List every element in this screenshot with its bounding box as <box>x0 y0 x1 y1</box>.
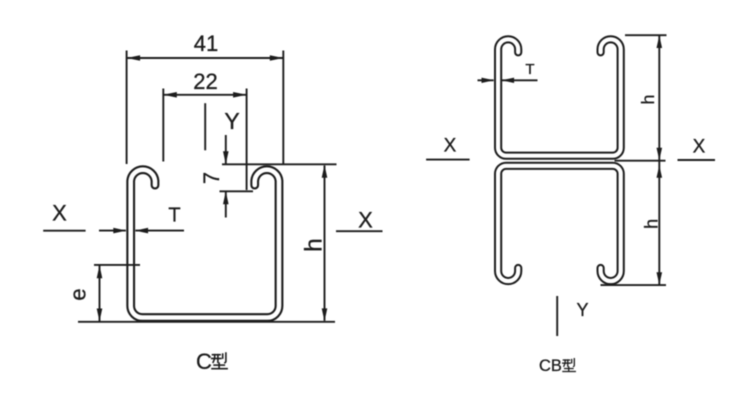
bottom extension line <box>601 284 667 286</box>
lower h arrows <box>657 165 663 178</box>
X axis label line left <box>43 230 85 232</box>
dim T right arrow (points left at inner wall) <box>135 230 184 232</box>
dim e top reference line <box>94 264 140 266</box>
svg-text:X: X <box>52 201 67 226</box>
X axis label line right (right diagram) <box>678 159 716 161</box>
X axis label line left (right diagram) <box>426 159 470 161</box>
svg-text:7: 7 <box>199 172 224 184</box>
dim 41 extension line right <box>282 51 284 165</box>
dim 41 arrow left <box>127 55 141 61</box>
dim 7 upper arrow (points down) <box>225 135 227 164</box>
dim 41 arrow right <box>270 55 284 61</box>
dim T (right diagram) left arrow <box>478 79 494 81</box>
svg-text:C: C <box>196 349 212 374</box>
dim T (right diagram) right arrow <box>502 79 538 81</box>
C profile body (material drawn as double line via black+white strokes) <box>131 170 279 318</box>
Y axis line (right diagram) <box>556 296 558 336</box>
svg-text:41: 41 <box>194 31 218 56</box>
dim e vertical line with arrows <box>99 266 101 322</box>
svg-text:X: X <box>358 208 373 233</box>
dim 22 line <box>163 94 246 96</box>
Y axis line (left diagram) <box>204 103 206 150</box>
bottom base line (extends both sides of profile bottom) <box>78 321 335 323</box>
dim 7 / h top reference line <box>222 163 337 165</box>
svg-text:Y: Y <box>576 300 588 320</box>
dim T left arrow (points right at outer wall) <box>99 230 126 232</box>
dim 41 extension line left <box>126 51 128 165</box>
svg-text:X: X <box>444 136 457 157</box>
svg-text:X: X <box>693 137 706 158</box>
dim 41 line <box>127 57 284 59</box>
dim 22 arrow left <box>163 92 177 98</box>
dim h (left diagram) vertical line <box>324 166 326 321</box>
svg-text:h: h <box>300 238 327 252</box>
junction extension line <box>615 160 666 162</box>
svg-text:e: e <box>66 288 91 300</box>
dim 22 extension line right <box>246 89 248 191</box>
CB top C body <box>498 39 621 155</box>
dim 7 bottom reference line <box>220 190 254 192</box>
svg-text:T: T <box>525 61 534 78</box>
svg-text:22: 22 <box>193 69 217 94</box>
upper h arrows <box>657 36 663 49</box>
svg-text:T: T <box>168 204 180 226</box>
svg-text:CB: CB <box>539 357 562 375</box>
X axis label line right <box>336 230 383 232</box>
svg-text:Y: Y <box>224 108 239 134</box>
dim h (right diagram) vertical line (continuous) <box>658 36 660 285</box>
CB bottom C body <box>498 166 621 281</box>
svg-text:h: h <box>638 95 658 105</box>
upper h top extension line <box>625 34 667 36</box>
svg-text:h: h <box>641 219 661 229</box>
dim 7 lower arrow (points up) <box>225 192 227 218</box>
dim 22 arrow right <box>233 92 247 98</box>
dim 22 extension line left <box>162 89 164 162</box>
